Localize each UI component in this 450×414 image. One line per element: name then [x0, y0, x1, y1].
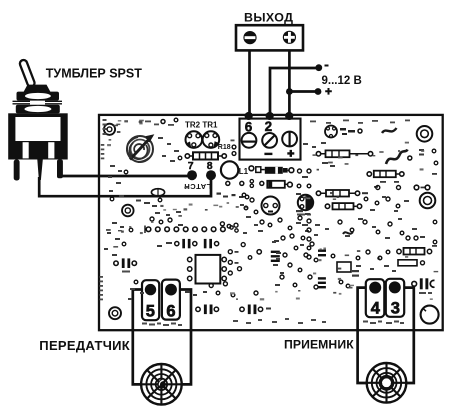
IC footprint [188, 255, 227, 284]
ring pad bottom-left [109, 307, 121, 319]
pad [122, 242, 126, 246]
svg-text:ПРИЕМНИК: ПРИЕМНИК [284, 338, 354, 352]
pads column mid [297, 169, 311, 223]
transducer right [367, 363, 407, 403]
pad 7 [187, 170, 197, 180]
WIRES-LAYER [39, 50, 414, 384]
bottom-center pads [209, 282, 258, 297]
svg-text:ТУМБЛЕР SPST: ТУМБЛЕР SPST [46, 67, 142, 81]
silkscreen right edge [432, 173, 437, 247]
electrolytic bars [271, 251, 280, 262]
svg-text:2: 2 [265, 119, 273, 134]
connector pad 3 [386, 279, 404, 318]
label plus battery [325, 88, 332, 95]
silkscreen under pads 5 6 [142, 323, 182, 327]
svg-text:9...12 В: 9...12 В [322, 75, 362, 87]
pad [245, 195, 249, 199]
label B1 [419, 149, 424, 156]
terminal minus [243, 31, 256, 44]
board plus label [287, 150, 294, 157]
PCB board [99, 115, 443, 330]
pad [129, 228, 133, 232]
pad [110, 156, 182, 201]
node battery plus [315, 88, 322, 95]
transistor mid [262, 197, 280, 215]
node PCB terminal 1 top [245, 112, 253, 120]
PCB-INTERNALS [101, 118, 313, 215]
svg-text:6: 6 [166, 303, 175, 321]
connector pad 6 [162, 280, 180, 321]
pads row [145, 226, 238, 234]
capacitor blob [340, 128, 355, 135]
pads near R18 bottom [150, 217, 238, 228]
svg-text:8: 8 [207, 160, 213, 172]
transistor TR2 [186, 131, 203, 148]
scattered pads right-bottom quadrant [280, 234, 418, 289]
terminal plus [283, 31, 296, 44]
electrolytic ring top-right [417, 126, 433, 142]
resistor row A right of L1 [249, 166, 294, 174]
resistor row mid-right B [367, 171, 404, 178]
wire [248, 50, 251, 116]
resistor row B [226, 180, 292, 188]
screw 3 [282, 132, 297, 147]
crystal circle bottom-right [421, 306, 439, 324]
silkscreen specks mid column [296, 162, 399, 215]
capacitor C5 near pads [412, 278, 435, 289]
svg-text:L1: L1 [239, 167, 249, 176]
board minus label [264, 153, 272, 155]
capacitor bottom row 1 [196, 305, 219, 315]
switch nut lower [16, 105, 60, 114]
switch nut upper [17, 92, 60, 101]
pad [408, 156, 412, 160]
node PCB terminal 3 top [285, 112, 293, 120]
screw 2 [262, 133, 277, 148]
right edge pads [432, 149, 438, 244]
switch pin left [14, 160, 20, 181]
connector pad 4 [366, 279, 385, 317]
diode [151, 189, 164, 196]
switch washer lines [13, 101, 63, 104]
svg-text:6: 6 [245, 120, 253, 135]
transistor under terminal [325, 126, 337, 138]
silkscreen column bottom-left [100, 276, 104, 300]
pad [257, 250, 261, 254]
VYHOD terminal block [236, 25, 303, 50]
silkscreen dash [178, 224, 183, 226]
capacitor row [157, 239, 219, 248]
node battery minus [315, 64, 322, 71]
resistor row mid-right C [316, 190, 368, 197]
silkscreen specks band2 [240, 142, 417, 239]
silkscreen top strip [145, 121, 174, 126]
pad [158, 198, 162, 202]
label minus battery [325, 65, 329, 67]
silkscreen C11 [297, 214, 311, 216]
pad [174, 118, 178, 122]
small box [337, 262, 351, 272]
screw 1 [242, 133, 257, 148]
node PCB terminal 3 [285, 112, 293, 120]
svg-text:ПЕРЕДАТЧИК: ПЕРЕДАТЧИК [39, 338, 130, 353]
switch lever [19, 59, 36, 88]
trimmer potentiometer [127, 136, 153, 162]
pad pair right [414, 185, 430, 190]
junction plus wire [286, 88, 293, 95]
wire [288, 50, 291, 116]
silkscreen C5 [419, 292, 432, 294]
wire [133, 290, 150, 385]
svg-text:5: 5 [146, 303, 155, 321]
wire [39, 175, 211, 196]
svg-text:LATCH: LATCH [184, 182, 211, 191]
pads 83 82 [376, 186, 401, 190]
PCB-TEXTURE [106, 120, 438, 301]
connector pad 5 [142, 280, 159, 320]
capacitor left [114, 258, 137, 272]
silkscreen center dashes [243, 216, 318, 260]
transistor bent leads [386, 150, 408, 165]
silkscreen specks band1 [108, 137, 181, 216]
silkscreen specks left [104, 200, 157, 257]
svg-text:4: 4 [371, 300, 381, 318]
silkscreen column left [101, 119, 107, 159]
switch body [8, 113, 67, 159]
svg-text:TR2 TR1: TR2 TR1 [185, 121, 218, 130]
wire [58, 175, 192, 178]
pad column center [307, 228, 311, 259]
switch lever collar [24, 85, 51, 92]
specks mid [217, 193, 244, 199]
wire [358, 288, 375, 383]
wavy jumper [382, 128, 397, 133]
silkscreen under pads 4 3 [363, 321, 404, 325]
switch pin middle [37, 160, 43, 181]
board terminal block [240, 119, 301, 160]
wire [395, 288, 414, 383]
wire [270, 68, 316, 116]
ring pad top-left [104, 124, 115, 135]
node PCB terminal 2 top [266, 112, 274, 120]
pads column right of IC [228, 243, 252, 275]
wire [289, 90, 315, 93]
pad [161, 120, 165, 124]
scan noise specks [106, 120, 438, 301]
pads band2 [242, 193, 404, 235]
resistor row mid-right A [316, 150, 372, 157]
silkscreen specks lower [273, 236, 425, 286]
silkscreen bottom strip [233, 318, 326, 324]
resistor bottom-right A [397, 248, 432, 255]
node PCB terminal 2 [266, 112, 274, 120]
wire [171, 290, 191, 385]
transducer left [141, 364, 182, 405]
electrolytic bars lower [318, 250, 326, 289]
silkscreen top strip right [310, 120, 410, 124]
wavy mark [343, 232, 353, 234]
svg-text:7: 7 [188, 160, 194, 172]
transistor with wedge [298, 195, 313, 210]
silkscreen bottom-center [185, 291, 207, 296]
transistor TR1 [203, 131, 220, 148]
capacitor bottom row 2 [240, 305, 271, 315]
resistor bottom-right B [398, 260, 425, 266]
pads band3 [134, 197, 400, 290]
ring pad left [122, 205, 134, 217]
resistor row mid-right D [325, 203, 361, 209]
svg-text:R18: R18 [218, 144, 231, 151]
svg-text:3: 3 [391, 300, 400, 318]
electrolytic ring right-mid [420, 193, 436, 209]
pad [358, 129, 362, 133]
pad column left of terminal [232, 145, 236, 155]
svg-text:ВЫХОД: ВЫХОД [244, 11, 293, 25]
inductor L1 [221, 161, 238, 178]
pad 8 [206, 170, 216, 180]
switch pin right [57, 160, 63, 179]
silkscreen specks band3 [128, 196, 409, 300]
resistor R18 [185, 152, 226, 159]
node PCB terminal 1 [245, 112, 253, 120]
